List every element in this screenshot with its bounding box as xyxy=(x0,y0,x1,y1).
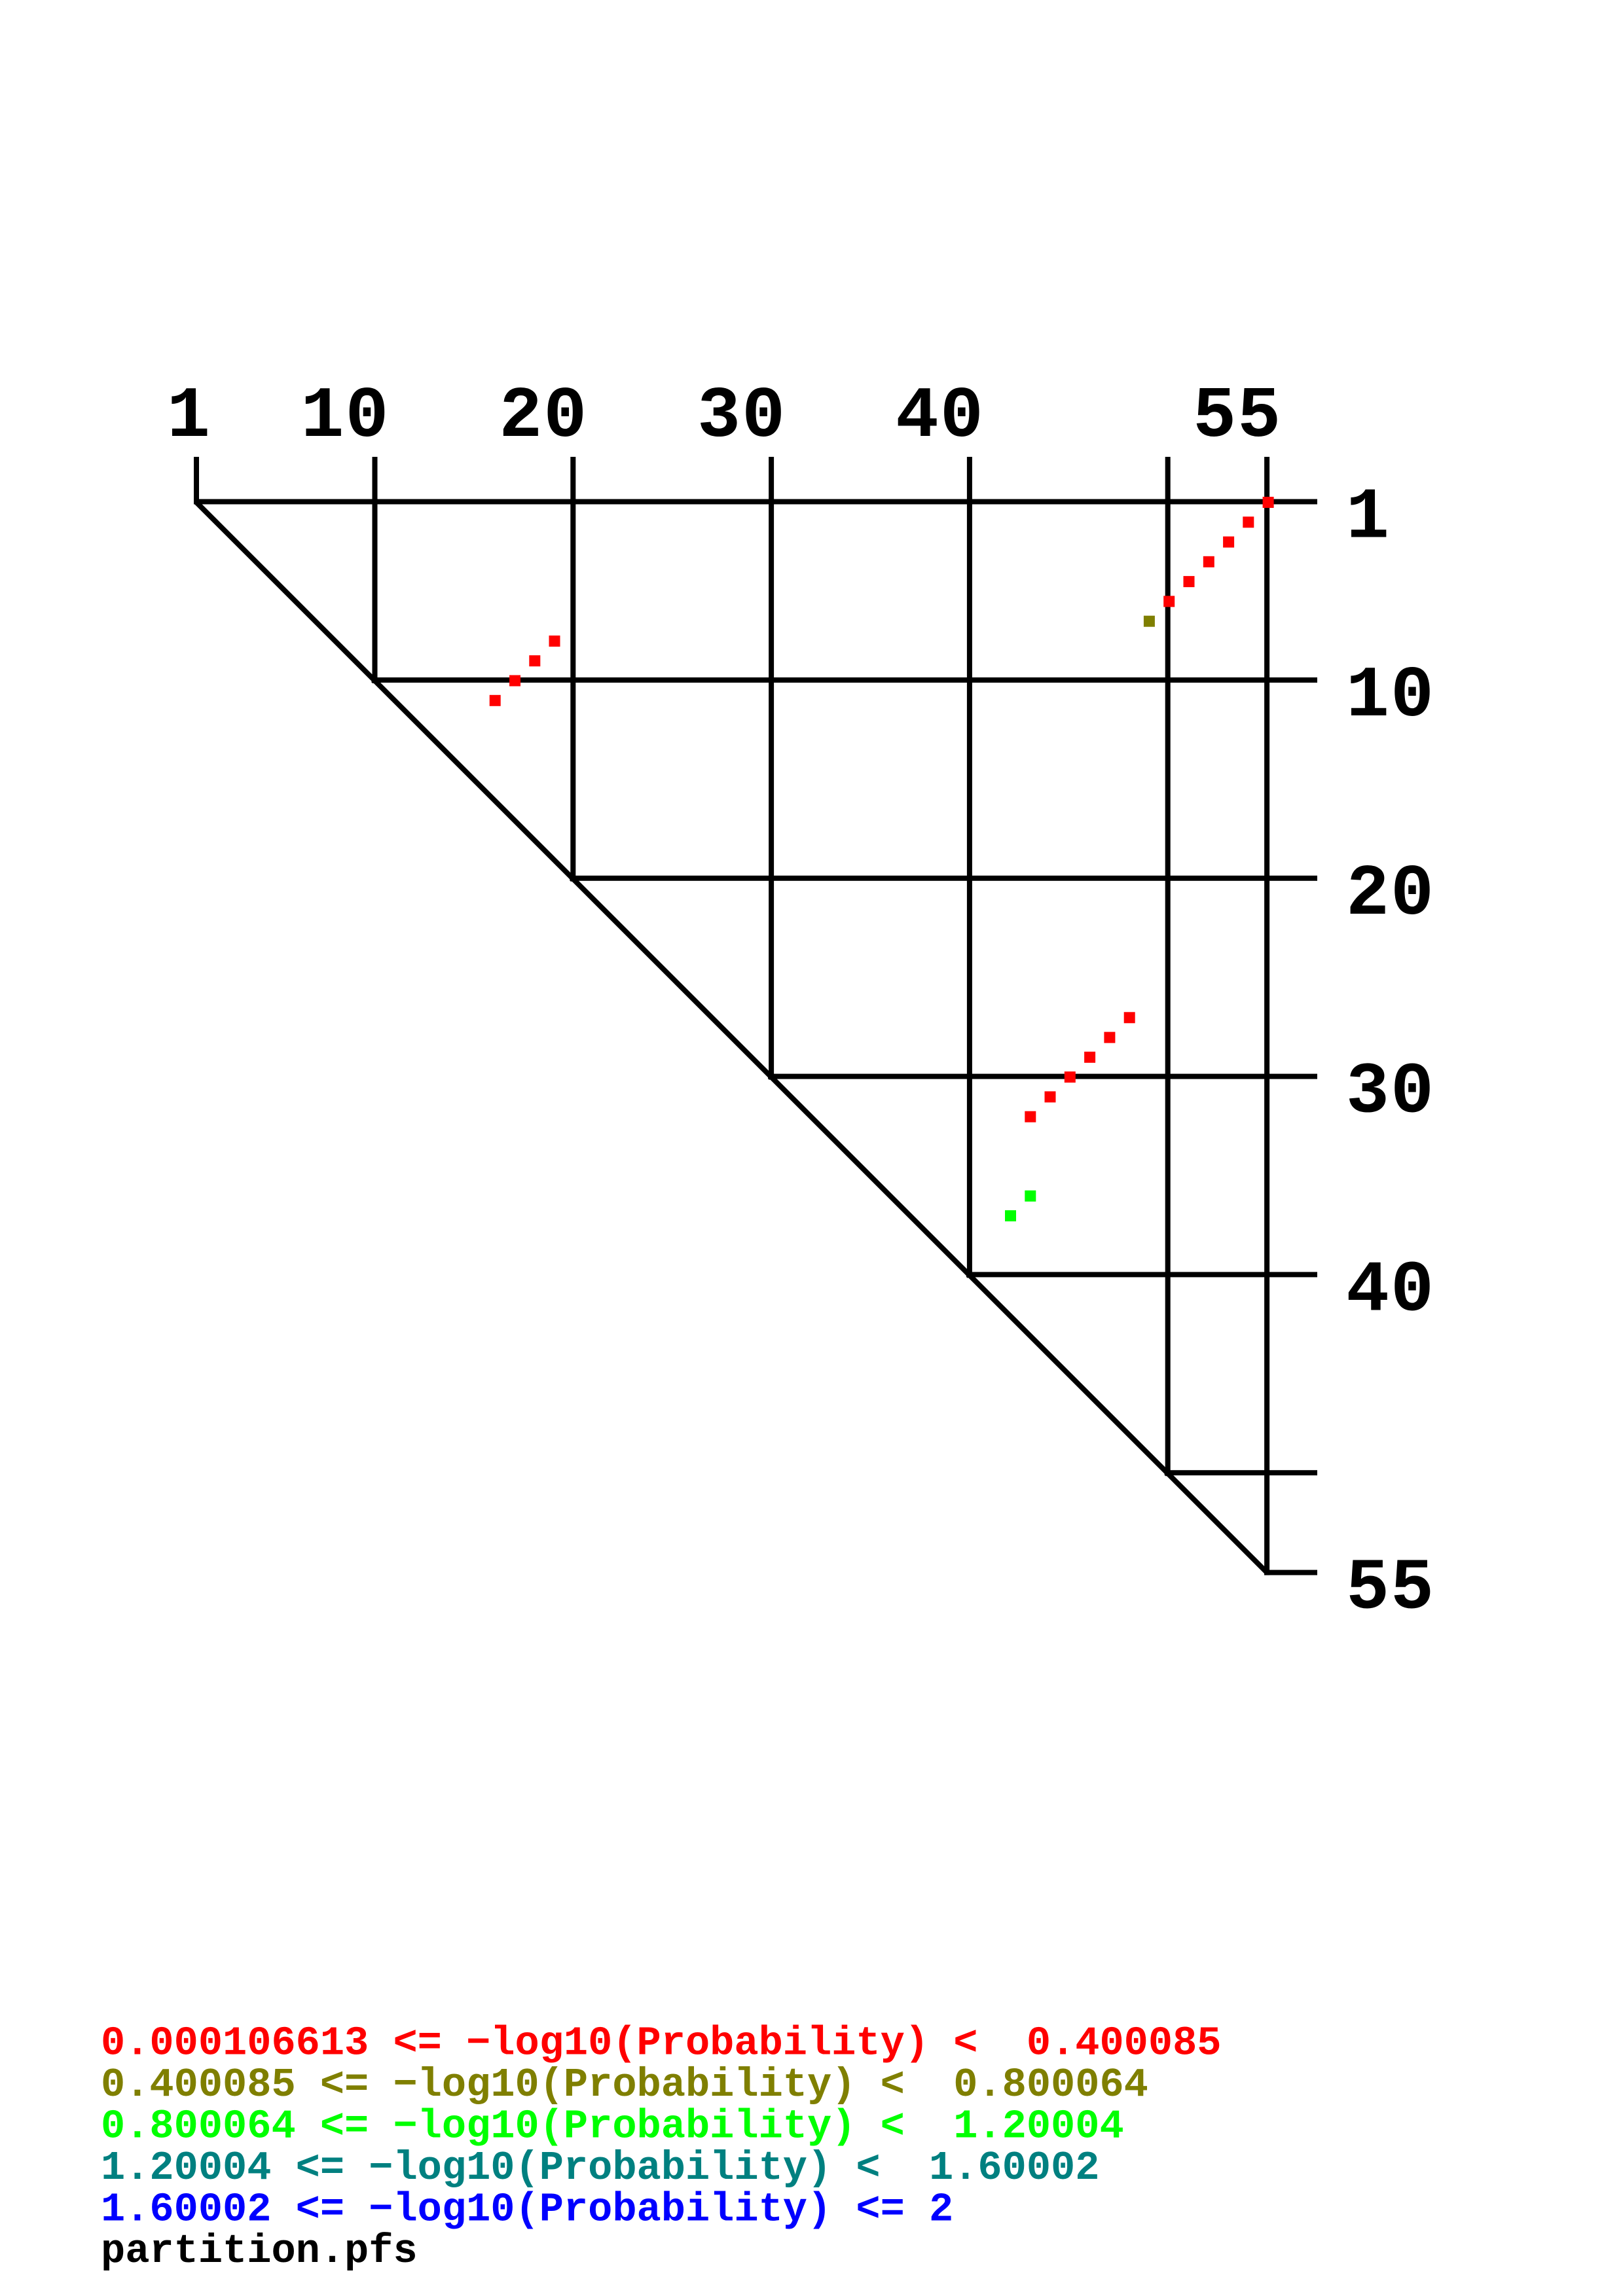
red dot pair (10,17) xyxy=(509,675,520,687)
red dot pair (27,48) xyxy=(1124,1012,1135,1023)
svg-text:0.800064 <= −log10(Probability: 0.800064 <= −log10(Probability) < 1.2000… xyxy=(101,2104,1124,2150)
svg-text:20: 20 xyxy=(499,376,588,458)
svg-text:55: 55 xyxy=(1346,1549,1435,1630)
vertical grid line column 50 xyxy=(1165,457,1171,1476)
svg-text:55: 55 xyxy=(1193,376,1282,458)
svg-text:1.20004 <= −log10(Probability): 1.20004 <= −log10(Probability) < 1.60002 xyxy=(101,2145,1099,2191)
red dot pair (9,18) xyxy=(529,655,540,666)
horizontal grid line row 20 xyxy=(570,876,1317,881)
red dot pair (6,50) xyxy=(1163,596,1175,607)
vertical grid line column 30 xyxy=(769,457,774,1080)
red dot pair (8,19) xyxy=(549,636,560,647)
svg-text:0.400085 <= −log10(Probability: 0.400085 <= −log10(Probability) < 0.8000… xyxy=(101,2062,1148,2108)
vertical grid line column 40 xyxy=(967,457,972,1278)
red dot pair (11,16) xyxy=(490,695,501,706)
green dot pair (36,43) xyxy=(1025,1191,1036,1202)
red dot pair (4,52) xyxy=(1203,556,1214,567)
red dot pair (3,53) xyxy=(1223,537,1234,548)
svg-text:40: 40 xyxy=(1346,1250,1435,1332)
svg-text:partition.pfs: partition.pfs xyxy=(101,2228,418,2274)
red dot pair (31,44) xyxy=(1045,1091,1056,1102)
red dot pair (1,55) xyxy=(1263,497,1274,508)
red dot pair (5,51) xyxy=(1184,576,1195,587)
vertical grid line column 10 xyxy=(373,457,378,683)
olive dot pair (7,49) xyxy=(1144,616,1155,627)
right edge vertical line column 55 xyxy=(1264,457,1269,1575)
svg-text:1: 1 xyxy=(1346,478,1391,560)
svg-text:1: 1 xyxy=(167,376,211,458)
svg-text:10: 10 xyxy=(301,376,390,458)
red dot pair (32,43) xyxy=(1025,1111,1036,1122)
red dot pair (2,54) xyxy=(1243,516,1254,528)
bottom tick row 55 xyxy=(1264,1570,1317,1575)
horizontal grid line row 10 xyxy=(372,677,1318,683)
svg-text:30: 30 xyxy=(1346,1052,1435,1134)
top axis line (row 1) xyxy=(194,499,1317,505)
diagonal boundary line xyxy=(196,502,1267,1573)
svg-text:10: 10 xyxy=(1346,656,1435,738)
tick column 1 xyxy=(194,457,199,505)
svg-text:40: 40 xyxy=(896,376,985,458)
svg-text:30: 30 xyxy=(697,376,786,458)
horizontal grid line row 30 xyxy=(768,1074,1317,1079)
svg-text:20: 20 xyxy=(1346,854,1435,936)
green dot pair (37,42) xyxy=(1005,1210,1016,1221)
horizontal grid line row 50 xyxy=(1165,1470,1317,1475)
red dot pair (28,47) xyxy=(1104,1032,1115,1043)
red dot pair (30,45) xyxy=(1065,1071,1076,1083)
vertical grid line column 20 xyxy=(570,457,575,882)
horizontal grid line row 40 xyxy=(966,1272,1317,1277)
svg-text:0.000106613 <= −log10(Probabil: 0.000106613 <= −log10(Probability) < 0.4… xyxy=(101,2020,1221,2067)
red dot pair (29,46) xyxy=(1084,1052,1095,1063)
svg-text:1.60002 <= −log10(Probability): 1.60002 <= −log10(Probability) <= 2 xyxy=(101,2187,953,2233)
